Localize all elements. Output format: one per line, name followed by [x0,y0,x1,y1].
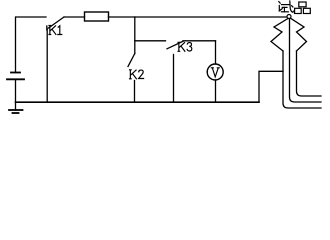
label 品 (three boxes) [295,2,311,14]
label K1 [49,26,62,35]
battery E plate long (bottom) [7,78,24,80]
resistor R (box) [85,12,109,21]
switch K3 blade [167,41,183,49]
ground bar 2 [13,112,19,114]
cable sheath outer conductor (left line, bends right) [283,51,321,108]
wire bottom rail [16,101,260,103]
wire top-left from battery top corner to switch K1 [16,17,47,73]
wire K1 hinge down to bottom rail [46,29,48,103]
label V of voltmeter [211,68,219,77]
wire from K1 to resistor R [64,16,85,18]
switch K1 hinge contact tick [46,26,48,30]
wire K2 branch vertical upper [134,17,136,54]
cable core conductor (center line from node, bends right) [290,19,322,103]
wire K2 lower to bottom rail [134,81,136,103]
wire battery to rail and ground [15,79,17,110]
label K3 [178,42,192,51]
wire K3 branch right to voltmeter [183,40,216,42]
cable insulation zigzag left [271,19,288,52]
voltmeter V (circle) [207,64,223,80]
switch K2 blade [128,54,135,67]
wire rail step up to cable sheath [259,71,283,102]
wire voltmeter bottom lead [215,80,217,102]
switch K1 blade [49,17,65,28]
cable inner conductor (right line, bends right) [297,51,322,96]
wire K3 hinge down to bottom rail [173,55,175,103]
wire K3 branch left [135,40,166,42]
node terminal circle of test sample [287,15,291,19]
label 试 (hand-drawn strokes) [279,1,294,12]
cable insulation zigzag right [291,19,307,52]
wire voltmeter top lead [215,41,217,64]
wire top from resistor to test-sample node [109,16,287,18]
label K2 [130,70,144,79]
battery E plate short (top) [11,72,20,74]
ground bar 1 [9,109,23,111]
